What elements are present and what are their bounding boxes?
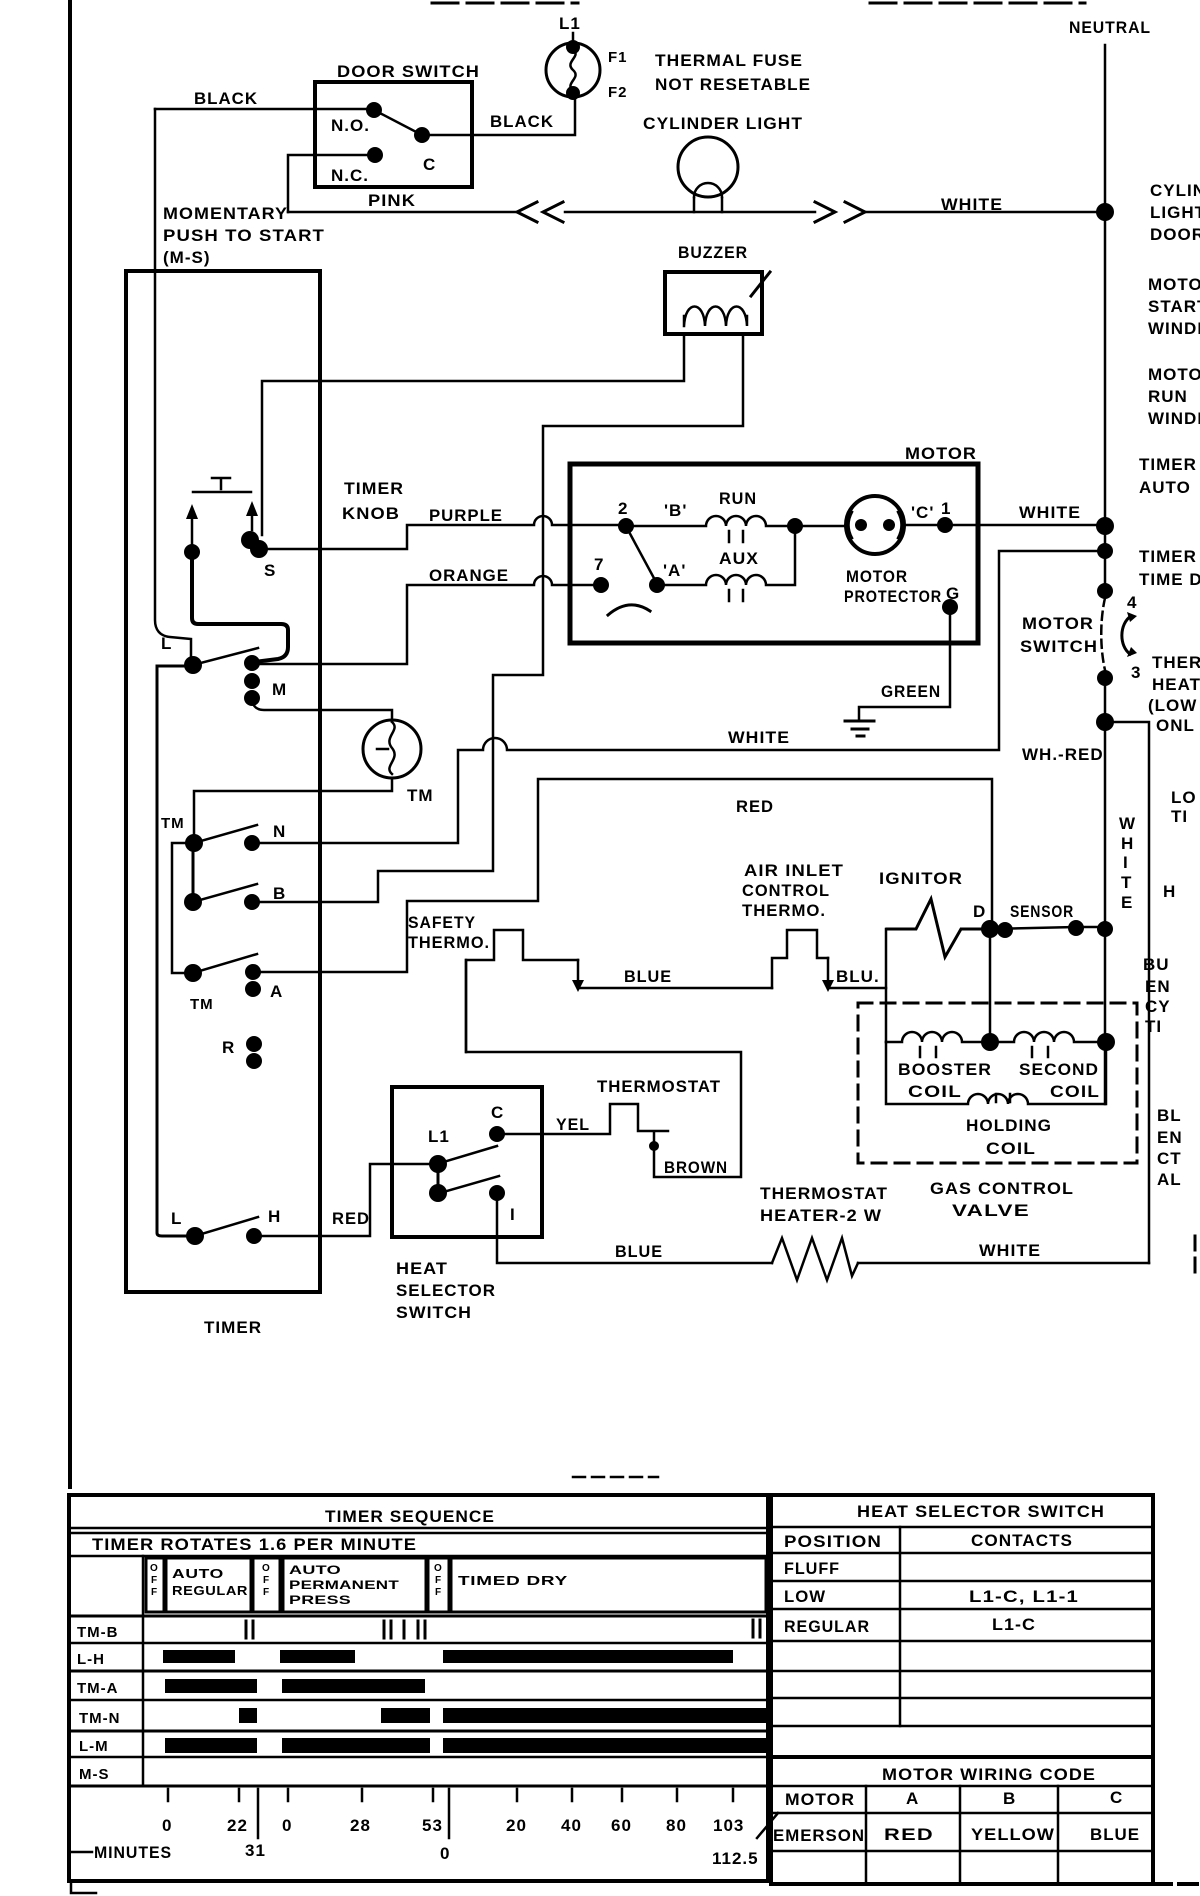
svg-text:I: I	[510, 1205, 516, 1224]
svg-text:LO: LO	[1171, 788, 1197, 807]
door switch contact C	[414, 127, 430, 143]
svg-text:MOTOR: MOTOR	[1022, 614, 1094, 633]
svg-text:1: 1	[941, 499, 951, 518]
svg-text:W: W	[1119, 814, 1136, 833]
momentary arrow left	[191, 516, 194, 548]
svg-text:THERMO.: THERMO.	[408, 933, 490, 952]
svg-text:L1: L1	[428, 1127, 450, 1146]
svg-text:MOTOR: MOTOR	[1148, 365, 1200, 384]
svg-text:MOTOR WIRING CODE: MOTOR WIRING CODE	[882, 1765, 1096, 1784]
svg-text:IGNITOR: IGNITOR	[879, 869, 963, 888]
svg-text:BUZZER: BUZZER	[678, 243, 748, 262]
svg-text:DOOR: DOOR	[1150, 225, 1200, 244]
svg-text:POSITION: POSITION	[784, 1532, 882, 1551]
svg-text:CONTACTS: CONTACTS	[971, 1531, 1073, 1550]
wire red from A contact to ignitor junction	[253, 779, 992, 972]
svg-text:N.C.: N.C.	[331, 166, 369, 185]
svg-text:80: 80	[666, 1816, 687, 1835]
svg-text:YEL: YEL	[556, 1115, 590, 1134]
svg-text:TM-B: TM-B	[77, 1624, 119, 1641]
svg-text:I: I	[1123, 853, 1129, 872]
svg-text:WHITE: WHITE	[1019, 503, 1081, 522]
door switch contact N.O.	[366, 102, 382, 118]
minutes scale ticks	[168, 1789, 733, 1801]
svg-text:TIMER ROTATES 1.6 PER MINUTE: TIMER ROTATES 1.6 PER MINUTE	[92, 1535, 417, 1554]
svg-text:0: 0	[282, 1816, 292, 1835]
svg-text:M: M	[272, 680, 287, 699]
svg-text:A: A	[906, 1789, 919, 1808]
timer motor TM	[363, 720, 421, 778]
svg-text:(M-S): (M-S)	[163, 248, 210, 267]
svg-text:LOW: LOW	[784, 1587, 826, 1606]
door switch box	[315, 62, 480, 187]
svg-text:A: A	[270, 982, 283, 1001]
svg-text:L: L	[171, 1209, 182, 1228]
svg-text:C: C	[1110, 1788, 1123, 1807]
svg-text:F: F	[263, 1575, 269, 1586]
svg-text:TM-A: TM-A	[77, 1680, 119, 1697]
TM-N bars	[239, 1708, 257, 1723]
svg-text:60: 60	[611, 1816, 632, 1835]
heat selector blades	[447, 1146, 499, 1191]
svg-text:GREEN: GREEN	[881, 682, 941, 701]
wire blue bottom from I	[497, 1201, 772, 1263]
svg-text:N.O.: N.O.	[331, 116, 370, 135]
contact N	[194, 825, 257, 843]
svg-text:7: 7	[594, 555, 604, 574]
svg-text:O: O	[150, 1563, 158, 1574]
contact M stack	[244, 655, 260, 671]
push-to-start T symbol	[193, 478, 251, 492]
svg-text:BLUE: BLUE	[1090, 1825, 1140, 1844]
svg-text:PUSH TO START: PUSH TO START	[163, 226, 325, 245]
svg-text:N: N	[273, 822, 286, 841]
svg-text:COIL: COIL	[986, 1139, 1036, 1158]
L-M bars	[165, 1738, 257, 1753]
svg-text:53: 53	[422, 1816, 443, 1835]
svg-text:F: F	[151, 1575, 157, 1586]
bottom border extension	[1153, 1882, 1200, 1886]
svg-text:THER: THER	[1152, 653, 1200, 672]
svg-text:SELECTOR: SELECTOR	[396, 1281, 496, 1300]
wire pink from N.C.	[288, 155, 375, 212]
motor protector	[795, 525, 845, 528]
L-H bars	[163, 1650, 235, 1663]
svg-text:TM-N: TM-N	[79, 1710, 121, 1727]
svg-text:HOLDING: HOLDING	[966, 1116, 1052, 1135]
wire green	[859, 607, 950, 720]
svg-text:EN: EN	[1145, 977, 1171, 996]
TM-B tick marks	[246, 1620, 760, 1638]
svg-text:TIMER SEQUENCE: TIMER SEQUENCE	[325, 1507, 495, 1526]
svg-text:BROWN: BROWN	[664, 1158, 728, 1177]
svg-text:F: F	[435, 1587, 441, 1598]
svg-text:0: 0	[440, 1844, 450, 1863]
svg-text:L-M: L-M	[79, 1738, 109, 1755]
buzzer	[665, 243, 770, 334]
svg-text:EN: EN	[1157, 1128, 1183, 1147]
svg-text:PERMANENT: PERMANENT	[289, 1578, 400, 1592]
svg-text:COIL: COIL	[908, 1082, 962, 1101]
svg-text:BLACK: BLACK	[194, 89, 258, 108]
svg-text:FLUFF: FLUFF	[784, 1559, 840, 1578]
svg-text:AL: AL	[1157, 1170, 1182, 1189]
svg-text:MOTOR: MOTOR	[846, 567, 908, 586]
svg-text:D: D	[973, 902, 986, 921]
svg-text:L1: L1	[559, 14, 581, 33]
svg-text:'B': 'B'	[664, 501, 687, 520]
svg-text:31: 31	[245, 1841, 266, 1860]
svg-text:RUN: RUN	[719, 489, 757, 508]
svg-text:TIMED DRY: TIMED DRY	[458, 1573, 568, 1588]
svg-text:SWITCH: SWITCH	[1020, 637, 1098, 656]
wire buzzer left leg to S contact	[262, 334, 684, 535]
svg-text:BLUE: BLUE	[624, 967, 672, 986]
svg-text:3: 3	[1131, 663, 1141, 682]
svg-text:O: O	[434, 1563, 442, 1574]
svg-text:TM: TM	[190, 996, 214, 1013]
svg-text:SAFETY: SAFETY	[408, 913, 476, 932]
heat selector switch table frame	[771, 1495, 1153, 1884]
svg-text:'C': 'C'	[911, 503, 934, 522]
svg-text:ONL: ONL	[1156, 716, 1195, 735]
svg-text:DOOR SWITCH: DOOR SWITCH	[337, 62, 480, 81]
svg-text:S: S	[264, 561, 276, 580]
svg-text:20: 20	[506, 1816, 527, 1835]
svg-text:CT: CT	[1157, 1149, 1182, 1168]
svg-text:(LOW: (LOW	[1148, 696, 1197, 715]
bottom left mark	[71, 1881, 96, 1893]
wire pink/white horizontal run	[288, 211, 1105, 214]
svg-text:L: L	[161, 634, 172, 653]
wire white bottom	[858, 1262, 1149, 1265]
svg-text:L1-C, L1-1: L1-C, L1-1	[969, 1587, 1079, 1606]
svg-text:'A': 'A'	[663, 561, 686, 580]
momentary arrow right	[251, 514, 254, 530]
svg-text:THERMAL FUSE: THERMAL FUSE	[655, 51, 803, 70]
svg-text:T: T	[1121, 873, 1132, 892]
second coil	[990, 1032, 1106, 1042]
TM-A bars	[165, 1679, 257, 1693]
svg-text:THERMOSTAT: THERMOSTAT	[597, 1077, 721, 1096]
pre-table dashes	[573, 1476, 658, 1479]
svg-text:PURPLE: PURPLE	[429, 506, 503, 525]
svg-text:HEAT: HEAT	[396, 1259, 448, 1278]
svg-text:H: H	[1121, 834, 1134, 853]
motor switch blade 2-A	[628, 530, 655, 580]
svg-text:BLACK: BLACK	[490, 112, 554, 131]
thermal fuse F1 F2	[546, 33, 628, 101]
svg-text:THERMOSTAT: THERMOSTAT	[760, 1184, 888, 1203]
svg-text:40: 40	[561, 1816, 582, 1835]
svg-text:28: 28	[350, 1816, 371, 1835]
right edge ticks	[1194, 1236, 1197, 1272]
svg-text:WHITE: WHITE	[979, 1241, 1041, 1260]
svg-text:PROTECTOR: PROTECTOR	[844, 587, 942, 606]
svg-text:BL: BL	[1157, 1106, 1182, 1125]
svg-text:2: 2	[618, 499, 628, 518]
top edge dashed line	[432, 2, 578, 5]
svg-text:112.5: 112.5	[712, 1849, 759, 1868]
svg-text:REGULAR: REGULAR	[784, 1617, 870, 1636]
wire D to booster junction	[989, 929, 992, 1042]
cylinder light lamp	[643, 114, 803, 212]
svg-text:O: O	[262, 1563, 270, 1574]
svg-text:TIMER: TIMER	[1139, 455, 1197, 474]
svg-text:COIL: COIL	[1050, 1082, 1100, 1101]
svg-text:AUTO: AUTO	[1139, 478, 1191, 497]
chevron arrows right	[815, 202, 865, 222]
wire TM motor to TM pivot	[194, 778, 392, 834]
wire momentary to M contact	[192, 556, 288, 662]
svg-text:NEUTRAL: NEUTRAL	[1069, 18, 1151, 37]
holding coil	[886, 1042, 1106, 1104]
svg-text:BU: BU	[1143, 955, 1170, 974]
wire blue	[578, 987, 772, 990]
svg-text:H: H	[268, 1207, 281, 1226]
svg-text:RED: RED	[332, 1209, 370, 1228]
timer sequence header boxes	[146, 1558, 164, 1612]
svg-text:TM: TM	[161, 815, 185, 832]
contact B	[184, 893, 202, 911]
svg-text:AUTO: AUTO	[172, 1566, 224, 1581]
wire buzzer right leg to timer B contact	[256, 334, 743, 902]
svg-text:PRESS: PRESS	[289, 1593, 351, 1607]
ground symbol	[845, 721, 874, 736]
neutral rail upper	[1104, 45, 1107, 591]
svg-text:E: E	[1121, 893, 1133, 912]
svg-text:NOT RESETABLE: NOT RESETABLE	[655, 75, 811, 94]
svg-text:PINK: PINK	[368, 191, 416, 210]
svg-text:CYLIN: CYLIN	[1150, 181, 1200, 200]
svg-text:TI: TI	[1171, 807, 1188, 826]
svg-text:BOOSTER: BOOSTER	[898, 1060, 992, 1079]
svg-text:WINDI: WINDI	[1148, 319, 1200, 338]
door switch contact N.C.	[367, 147, 383, 163]
gas valve coil frame left	[885, 929, 888, 1042]
svg-text:MOTOR: MOTOR	[785, 1790, 855, 1809]
svg-text:F: F	[263, 1587, 269, 1598]
svg-text:TIME D: TIME D	[1139, 570, 1200, 589]
motor box	[570, 464, 978, 643]
svg-text:MINUTES: MINUTES	[94, 1843, 172, 1862]
contact S	[241, 531, 259, 549]
svg-text:SWITCH: SWITCH	[396, 1303, 472, 1322]
svg-text:C: C	[423, 155, 436, 174]
svg-text:L1-C: L1-C	[992, 1615, 1036, 1634]
svg-text:VALVE: VALVE	[952, 1201, 1030, 1220]
svg-text:R: R	[222, 1038, 235, 1057]
heat selector switch box	[392, 1087, 542, 1237]
svg-text:WHITE: WHITE	[728, 728, 790, 747]
svg-text:TI: TI	[1145, 1017, 1162, 1036]
svg-text:WHITE: WHITE	[941, 195, 1003, 214]
wire red H to heat selector	[254, 1164, 436, 1236]
gas control valve dashed box	[858, 1003, 1137, 1163]
svg-text:C: C	[491, 1103, 504, 1122]
svg-text:REGULAR: REGULAR	[172, 1583, 248, 1598]
svg-text:22: 22	[227, 1816, 248, 1835]
svg-text:START: START	[1148, 297, 1200, 316]
svg-text:WINDI: WINDI	[1148, 409, 1200, 428]
svg-text:RUN: RUN	[1148, 387, 1188, 406]
svg-text:B: B	[273, 884, 286, 903]
svg-text:CY: CY	[1145, 997, 1171, 1016]
svg-text:MOTOR: MOTOR	[905, 444, 977, 463]
svg-text:HEAT: HEAT	[1152, 675, 1200, 694]
svg-text:SENSOR: SENSOR	[1010, 902, 1074, 921]
svg-text:F: F	[151, 1587, 157, 1598]
svg-text:103: 103	[713, 1816, 744, 1835]
svg-text:ORANGE: ORANGE	[429, 566, 509, 585]
svg-text:THERMO.: THERMO.	[742, 901, 826, 920]
wire M bottom to TM motor	[252, 698, 392, 720]
svg-text:TM: TM	[407, 786, 434, 805]
svg-text:AUX: AUX	[719, 549, 759, 568]
wire white neutral run	[252, 551, 1105, 843]
svg-text:EMERSON: EMERSON	[773, 1826, 865, 1845]
svg-text:RED: RED	[884, 1825, 934, 1844]
motor switch chain on neutral rail	[1097, 543, 1113, 559]
timer sequence table frame	[69, 1495, 768, 1881]
heat selector contact I	[489, 1185, 505, 1201]
page left border	[68, 0, 72, 1487]
svg-text:HEAT SELECTOR SWITCH: HEAT SELECTOR SWITCH	[857, 1502, 1105, 1521]
timer outer box	[126, 271, 320, 1292]
svg-text:AUTO: AUTO	[289, 1563, 341, 1577]
door switch blade	[374, 110, 422, 135]
wire thick left rail from L	[157, 666, 193, 1236]
svg-text:YELLOW: YELLOW	[971, 1825, 1055, 1844]
node junction neutral/white	[1096, 203, 1114, 221]
svg-text:F1: F1	[608, 49, 628, 66]
wire wh-red	[1105, 722, 1149, 1263]
svg-text:F: F	[435, 1575, 441, 1586]
svg-text:4: 4	[1127, 593, 1137, 612]
svg-text:MOMENTARY: MOMENTARY	[163, 204, 288, 223]
svg-text:TIMER: TIMER	[1139, 547, 1197, 566]
svg-text:LIGHT: LIGHT	[1150, 203, 1200, 222]
svg-text:F2: F2	[608, 84, 628, 101]
svg-text:TIMER: TIMER	[344, 479, 404, 498]
svg-text:RED: RED	[736, 797, 774, 816]
svg-text:GAS CONTROL: GAS CONTROL	[930, 1179, 1074, 1198]
svg-text:M-S: M-S	[79, 1766, 110, 1783]
svg-text:HEATER-2 W: HEATER-2 W	[760, 1206, 882, 1225]
svg-text:CYLINDER LIGHT: CYLINDER LIGHT	[643, 114, 803, 133]
svg-text:B: B	[1003, 1789, 1016, 1808]
wire black feed down to L contact	[155, 109, 191, 657]
wire blu to valve	[828, 987, 886, 990]
contact A	[184, 964, 202, 982]
svg-text:H: H	[1163, 882, 1176, 901]
svg-text:L-H: L-H	[77, 1651, 105, 1668]
svg-text:AIR INLET: AIR INLET	[744, 861, 844, 880]
svg-text:MOTOR: MOTOR	[1148, 275, 1200, 294]
svg-text:CONTROL: CONTROL	[742, 881, 830, 900]
svg-text:SECOND: SECOND	[1019, 1060, 1099, 1079]
svg-text:WH.-RED: WH.-RED	[1022, 745, 1104, 764]
svg-text:0: 0	[162, 1816, 172, 1835]
booster coil	[886, 1032, 990, 1042]
svg-text:BLU.: BLU.	[836, 967, 880, 986]
svg-text:KNOB: KNOB	[342, 504, 400, 523]
svg-text:TIMER: TIMER	[204, 1318, 262, 1337]
chevron arrows left	[517, 202, 563, 222]
svg-text:BLUE: BLUE	[615, 1242, 663, 1261]
